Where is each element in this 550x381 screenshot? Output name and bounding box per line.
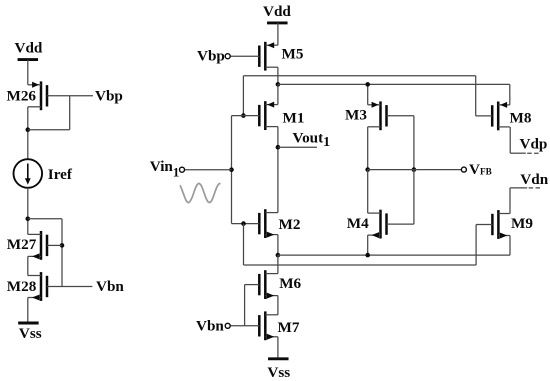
wire Iref to M27 drain [27,188,29,235]
wire M3 source vertical [367,84,369,104]
svg-text:Vss: Vss [19,325,42,342]
node M3/M4 gate junction [412,167,417,172]
wire VFB line [368,169,462,171]
wire Vout1 stub [278,146,317,148]
node Iref bottom junction [26,217,31,222]
wire M4 source down [367,235,369,255]
svg-text:Vbn: Vbn [96,278,124,295]
transistor M1 [232,101,278,130]
wire M2-M9 gate link horizontal [244,264,477,266]
wire Vdn stub [510,187,527,189]
AC source squiggle (sine) [180,183,221,202]
svg-text:M8: M8 [510,110,532,127]
svg-text:M4: M4 [347,215,369,232]
wire M9 gate link vertical [475,225,477,266]
wire M1 gate link vertical [242,76,244,116]
transistor M9 [476,210,510,239]
svg-text:Vdd: Vdd [263,3,291,20]
wire diode-connect M26 vertical [69,96,71,130]
wire M1 drain to M2 drain [277,127,279,213]
wire M3 drain down [367,127,369,170]
transistor M7 [230,311,278,340]
node M27 gate junction [60,243,65,248]
transistor M27 [28,231,62,260]
svg-text:Vdn: Vdn [520,171,548,188]
power rail Vss (left) [18,322,39,325]
node M3 source junction [365,82,370,87]
wire M27 source to M28 drain [27,256,29,275]
node M26 drain junction [26,127,31,132]
svg-text:Vdp: Vdp [520,136,548,153]
wire M1-M8 gate link horizontal [243,75,475,77]
svg-text:M6: M6 [279,275,301,292]
wire Vdd to M5 source [277,23,279,45]
transistor M6 [245,270,278,299]
svg-text:M7: M7 [278,319,300,336]
wire M7 source to Vss [277,337,279,359]
wire diode-connect M26 horizontal [28,129,70,131]
transistor M2 [232,209,278,238]
wire M2 source to M6 drain [277,255,279,274]
node Vout1 junction [276,145,281,150]
wire junction to gate bus (horizontal) [28,218,62,220]
wire M9 drain vertical [509,188,511,214]
svg-text:VFB: VFB [469,161,492,178]
svg-text:M2: M2 [279,216,301,233]
svg-text:M5: M5 [282,45,304,62]
svg-text:M27: M27 [7,236,37,253]
wire Vdp stub [510,152,526,154]
power rail Vdd (middle) [267,21,288,24]
terminal Vbn (middle) [225,323,230,328]
wire Vdd to M26 source [27,60,29,85]
svg-text:Vbn: Vbn [196,318,224,335]
wire M4 drain up [367,170,369,214]
svg-text:M26: M26 [7,88,37,105]
wire M2 source down [277,235,279,256]
wire left gate bus (vertical) [61,219,63,287]
wire M26 drain down [27,107,29,160]
wire M6 source to M7 drain [277,296,279,315]
power rail Vdd (left) [18,58,39,61]
transistor M8 [476,102,510,131]
terminal Vbp (middle) [225,54,230,59]
wire Vin to bus [185,169,232,171]
wire Vdp dashed stub [527,152,541,154]
wire M28 source to Vss [27,298,29,324]
node M2 gate junction [241,221,246,226]
wire tail-current bus y84 [278,83,510,85]
svg-text:M28: M28 [7,278,37,295]
power rail Vss (middle) [268,357,289,360]
transistor M28 [28,272,93,301]
wire M5 drain to M1 source [277,84,279,104]
svg-text:Vdd: Vdd [15,40,43,57]
wire M8 source vertical [509,84,511,105]
wire source bus y255 [278,254,510,256]
node VFB left junction [365,167,370,172]
svg-text:Iref: Iref [48,166,73,183]
node Vin junction [229,167,234,172]
transistor M5 [230,42,278,71]
current source Iref [13,159,42,188]
svg-text:Vbp: Vbp [197,47,225,64]
svg-text:M3: M3 [345,106,367,123]
wire M8 drain vertical [509,127,511,153]
node M4 source junction [365,253,370,258]
svg-text:Vss: Vss [267,364,290,381]
node M1 gate junction [241,113,246,118]
wire M3 gate down [413,116,415,170]
wire M4 gate up [413,170,415,225]
transistor M3 [368,101,414,130]
wire M2 gate link vertical [243,224,245,265]
transistor M26 [28,81,93,110]
wire M9 source vertical [509,236,511,256]
svg-text:M9: M9 [511,215,533,232]
node M5 drain junction [276,82,281,87]
svg-text:Vin1: Vin1 [150,158,179,180]
wire M6 gate down to Vbn [244,285,246,326]
terminal VFB [461,167,466,172]
transistor M4 [368,210,414,239]
wire M8 gate vertical [475,76,477,116]
wire input bus vertical [231,116,233,224]
svg-text:Vbp: Vbp [95,87,123,104]
wire Vdn dashed stub [529,187,542,189]
terminal Vin1 [180,167,185,172]
svg-text:M1: M1 [283,110,305,127]
wire M5 drain down [277,67,279,84]
node M2 source junction [276,253,281,258]
